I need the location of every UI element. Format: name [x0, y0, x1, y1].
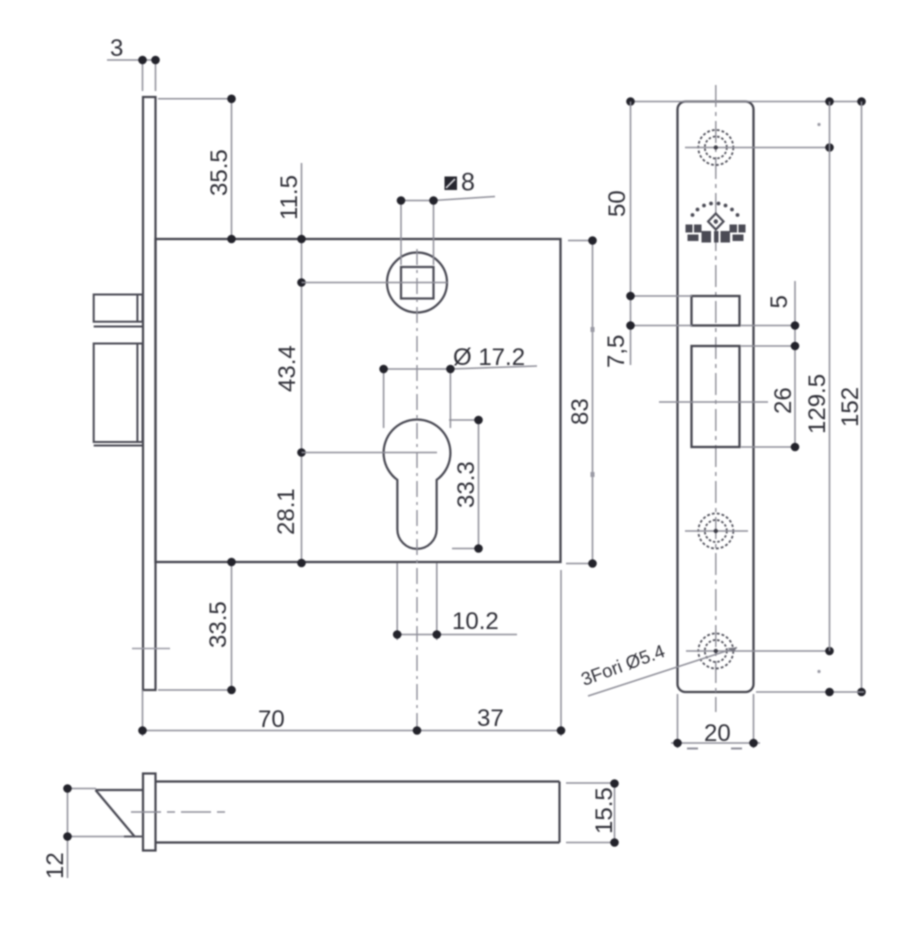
svg-text:33.5: 33.5: [205, 601, 232, 648]
svg-text:37: 37: [477, 705, 504, 732]
svg-text:10.2: 10.2: [452, 608, 499, 635]
svg-text:70: 70: [258, 706, 285, 733]
svg-text:20: 20: [704, 720, 731, 747]
spindle crosshair: [302, 282, 448, 284]
svg-text:33.3: 33.3: [453, 461, 480, 508]
dim Ø17.2: [384, 366, 537, 428]
latch centerline: [131, 811, 226, 813]
dim 33.5: [158, 562, 234, 690]
svg-text:5: 5: [766, 295, 793, 308]
faceplate strip (side): [143, 97, 156, 690]
middle screw hole: [698, 514, 733, 549]
dim 35.5: [158, 99, 234, 239]
cylinder crosshair: [302, 452, 438, 454]
plate centerline: [715, 85, 717, 712]
bottom screw hole: [698, 634, 733, 669]
dim 50 and 7.5: [631, 102, 693, 366]
leader 3Fori: [588, 648, 737, 697]
euro cylinder keyhole: [384, 419, 451, 548]
dim 5 and 26: [741, 281, 797, 447]
dim 15.5: [566, 783, 618, 843]
svg-text:50: 50: [604, 190, 631, 217]
svg-text:Ø 17.2: Ø 17.2: [453, 344, 525, 371]
svg-text:8: 8: [461, 169, 475, 197]
latch bar: [156, 782, 560, 843]
deadbolt window: [692, 346, 740, 447]
svg-text:3: 3: [110, 35, 123, 62]
dim 33.3: [449, 420, 482, 549]
svg-text:15.5: 15.5: [591, 787, 618, 834]
bottom extension line: [756, 691, 864, 693]
svg-text:35.5: 35.5: [206, 149, 233, 196]
svg-text:83: 83: [567, 398, 594, 425]
faceplate cross-section flange: [143, 774, 156, 851]
lock body rectangle: [156, 239, 561, 562]
svg-text:129.5: 129.5: [804, 374, 831, 434]
top screw hole: [698, 130, 733, 165]
latch bolt (protruding): [94, 295, 143, 327]
dim 152: [861, 102, 863, 693]
brand logo stamp: [686, 202, 746, 243]
latch head bevel: [96, 790, 144, 837]
svg-text:43.4: 43.4: [274, 345, 301, 392]
svg-text:152: 152: [837, 387, 864, 427]
dim line 11.5 / 43.4 / 28.1: [301, 163, 303, 563]
deadbolt (protruding): [94, 344, 143, 446]
latch window: [692, 296, 740, 326]
stray specks: [817, 123, 820, 126]
deadbolt window crosshair: [659, 401, 768, 403]
top extension line: [631, 101, 862, 103]
svg-text:12: 12: [42, 852, 69, 879]
svg-text:26: 26: [770, 387, 797, 414]
dim 3 (plate thickness): [107, 60, 159, 91]
dim 20: [671, 694, 760, 749]
dim 12: [68, 789, 97, 879]
screw-hole tick on strip: [132, 648, 170, 650]
dim 10.2: [394, 563, 517, 640]
dim 83: [566, 241, 595, 564]
svg-text:28.1: 28.1: [273, 488, 300, 535]
spindle hole: square 8mm: [401, 267, 434, 299]
centerline through holes: [416, 249, 418, 730]
dim square-8: [397, 197, 495, 266]
dim 70 / 37 baseline: [143, 570, 562, 736]
svg-text:7,5: 7,5: [603, 335, 630, 368]
svg-text:11.5: 11.5: [276, 175, 303, 220]
spindle hole: circle: [387, 253, 447, 313]
faceplate plate outline: [678, 102, 754, 693]
svg-text:3Fori Ø5.4: 3Fori Ø5.4: [578, 640, 667, 690]
dim 129.5: [829, 102, 831, 652]
